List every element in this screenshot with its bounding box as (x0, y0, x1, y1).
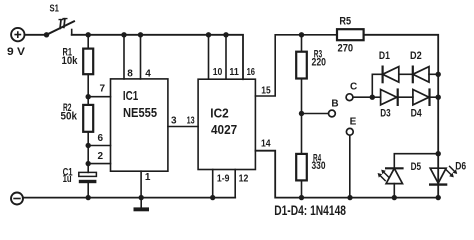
svg-text:D1-D4: 1N4148: D1-D4: 1N4148 (274, 202, 346, 218)
svg-text:D1: D1 (379, 50, 390, 62)
svg-text:D5: D5 (411, 161, 422, 173)
svg-text:1-9: 1-9 (217, 173, 230, 184)
svg-text:10k: 10k (62, 55, 79, 67)
svg-text:6: 6 (98, 133, 104, 144)
svg-text:D6: D6 (455, 160, 466, 172)
svg-text:11: 11 (229, 67, 239, 78)
svg-text:10: 10 (213, 67, 223, 78)
svg-text:9 V: 9 V (7, 46, 26, 58)
svg-text:16: 16 (247, 67, 256, 78)
svg-text:1u: 1u (63, 173, 72, 185)
svg-text:IC1: IC1 (123, 88, 138, 103)
svg-text:D4: D4 (411, 107, 423, 119)
svg-text:14: 14 (261, 138, 271, 149)
svg-text:270: 270 (338, 42, 354, 54)
svg-text:S1: S1 (50, 4, 60, 15)
svg-text:R5: R5 (339, 16, 351, 28)
svg-text:E: E (350, 117, 357, 128)
svg-text:D2: D2 (410, 50, 422, 62)
svg-text:2: 2 (98, 151, 104, 162)
svg-text:NE555: NE555 (123, 105, 157, 120)
svg-text:4: 4 (145, 68, 151, 79)
svg-text:3: 3 (171, 115, 177, 126)
svg-text:4027: 4027 (211, 122, 237, 137)
svg-text:13: 13 (187, 115, 195, 126)
svg-text:7: 7 (100, 84, 106, 95)
svg-text:1: 1 (145, 172, 151, 183)
svg-text:D3: D3 (380, 107, 390, 119)
svg-text:15: 15 (261, 85, 271, 96)
svg-text:220: 220 (312, 57, 327, 69)
svg-text:330: 330 (312, 160, 326, 172)
svg-text:8: 8 (127, 68, 133, 79)
svg-text:C: C (350, 81, 357, 92)
svg-text:50k: 50k (61, 111, 78, 123)
svg-text:12: 12 (239, 173, 249, 184)
svg-text:B: B (331, 99, 338, 110)
svg-text:IC2: IC2 (210, 105, 228, 120)
